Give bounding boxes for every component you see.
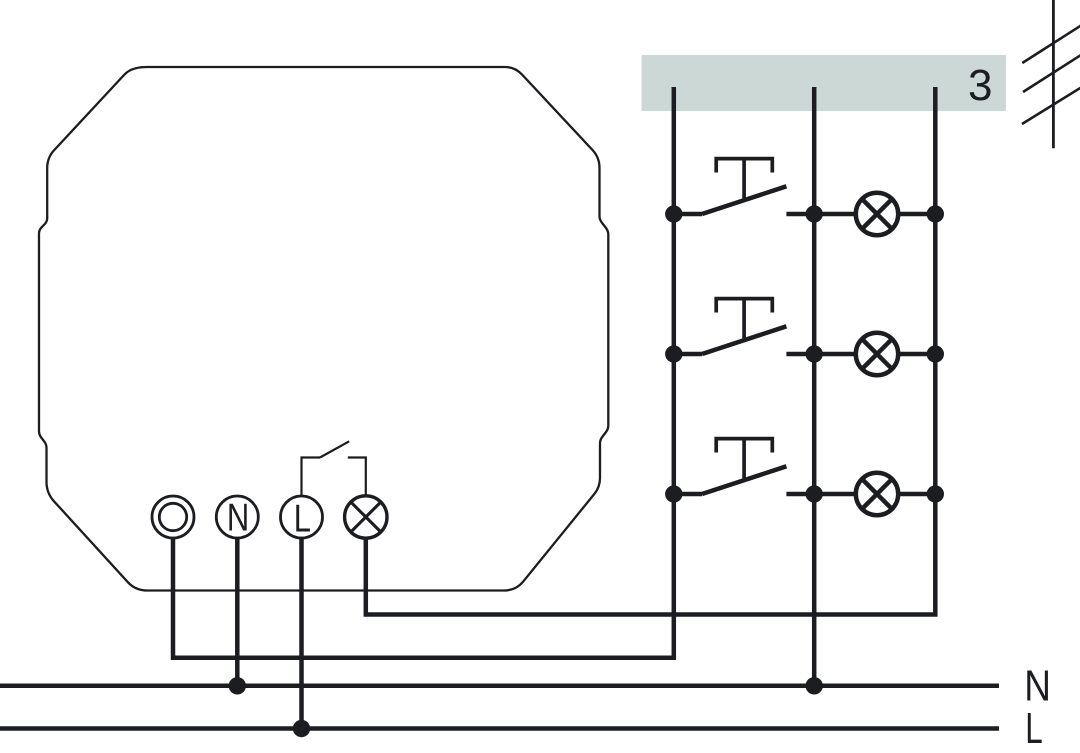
junction dot row 3 right [927, 485, 944, 502]
terminal lamp X [351, 502, 381, 532]
wire row 2 to lamp and right column [786, 352, 935, 357]
terminal circle N [216, 496, 258, 538]
wire row 3 to lamp and right column [786, 492, 935, 497]
switch S2 blade [702, 326, 786, 354]
switch S3 blade [702, 466, 786, 494]
junction dot row 3 middle [806, 485, 823, 502]
cable slash 1 [1022, 26, 1080, 64]
device housing outline (flush-mount insert) [39, 67, 608, 591]
wire: loop-through terminal to left bus column [173, 87, 674, 658]
internal relay contact: wire from L up [302, 458, 321, 498]
wire row 3 contact feed [674, 492, 702, 497]
wire: L distribution line [0, 726, 999, 731]
switch S1 blade [702, 186, 786, 214]
terminal inner ring [159, 503, 186, 530]
junction dot row 1 right [927, 205, 944, 222]
junction dot L terminal on L line [293, 720, 310, 737]
junction dot row 1 middle [806, 205, 823, 222]
push-button actuator S1 [716, 159, 772, 200]
junction dot row 1 left [665, 205, 682, 222]
wire: L terminal down to L line [299, 538, 304, 729]
internal relay contact: fixed side to lamp terminal [348, 458, 366, 498]
terminal circle L [281, 496, 323, 538]
internal relay contact: blade [320, 441, 349, 457]
lamp E2 [856, 333, 898, 375]
junction dot row 2 right [927, 345, 944, 362]
svg-text:L: L [294, 497, 311, 540]
wire: N distribution line [0, 684, 999, 689]
cable slash 2 [1023, 55, 1080, 92]
push-button actuator S3 [716, 439, 772, 480]
terminal circle lamp output [345, 496, 387, 538]
cable slash 3 [1022, 88, 1080, 125]
lamp E2 cross [862, 339, 892, 369]
lamp E1 [856, 193, 898, 235]
lamp E3 [856, 473, 898, 515]
svg-text:N: N [227, 496, 249, 539]
wire row 1 contact feed [674, 212, 702, 217]
junction dot row 3 left [665, 485, 682, 502]
junction dot row 2 left [665, 345, 682, 362]
svg-text:N: N [1024, 660, 1051, 710]
lamp E1 cross [862, 199, 892, 229]
svg-text:L: L [1025, 705, 1042, 753]
terminal circle (loop-through output) [152, 496, 194, 538]
wire: N terminal down to N line [235, 538, 240, 686]
junction dot N terminal on N line [229, 677, 246, 694]
wire row 2 contact feed [674, 352, 702, 357]
junction dot row 2 middle [806, 345, 823, 362]
junction dot middle column on N line [806, 677, 823, 694]
wire: middle column to N line [812, 87, 817, 686]
wire: lamp terminal to right lamp column [366, 87, 936, 615]
cable line to supply [1052, 0, 1055, 148]
cable marker bar (3-core) [642, 55, 1006, 111]
wire row 1 to lamp and right column [786, 212, 935, 217]
lamp E3 cross [862, 479, 892, 509]
svg-text:3: 3 [968, 61, 992, 110]
push-button actuator S2 [716, 299, 772, 340]
